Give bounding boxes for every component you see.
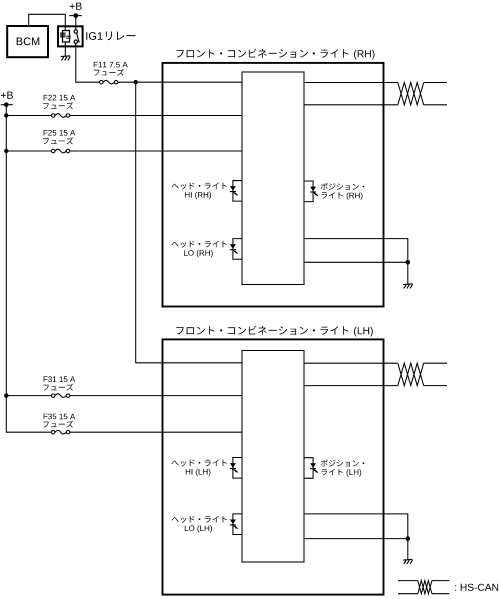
LED position light (RH) xyxy=(304,181,318,202)
fuse F22 15A xyxy=(51,114,69,118)
LED head light HI (RH) xyxy=(230,181,242,202)
wire RH CAN low out xyxy=(304,104,447,106)
label position light (RH) xyxy=(321,183,365,200)
relay coil xyxy=(60,27,71,46)
wire F35 to lamp xyxy=(70,431,242,433)
node LH ground junction xyxy=(406,536,411,541)
LED head light LO (RH) xyxy=(230,239,242,260)
node F25 tap xyxy=(4,149,8,153)
LED head light LO (LH) xyxy=(230,514,242,535)
wire rail to fuse F25 xyxy=(6,150,51,152)
BCM box xyxy=(7,26,48,57)
wire relay coil to ground xyxy=(64,46,66,56)
LH lamp internal unit box xyxy=(242,351,304,563)
fuse F35 15A xyxy=(51,430,69,434)
relay switch xyxy=(74,27,79,46)
label front combination light LH xyxy=(176,326,372,337)
wire F25 to lamp xyxy=(70,150,242,152)
wire to RH ground xyxy=(407,262,409,284)
wire RH lamp ground top xyxy=(304,239,408,263)
wire +B rail down xyxy=(6,105,51,433)
label head light LO (LH) xyxy=(172,516,227,533)
node +B (top, relay supply) xyxy=(69,3,82,18)
node F22 tap xyxy=(4,113,8,117)
wire LH CAN low out xyxy=(304,385,447,387)
wire RH CAN high out xyxy=(304,82,447,84)
RH lamp internal unit box xyxy=(242,72,304,285)
label head light HI (RH) xyxy=(172,183,227,200)
label F31 xyxy=(43,376,75,390)
wire junction down to LH lamp xyxy=(136,82,242,363)
ground (relay coil) xyxy=(61,56,70,61)
label head light HI (LH) xyxy=(172,459,227,476)
LED head light HI (LH) xyxy=(230,458,242,479)
fuse F31 15A xyxy=(51,394,69,398)
wire LH lamp ground bottom xyxy=(304,538,408,540)
twisted pair HS-CAN (LH) xyxy=(398,363,424,385)
LED position light (LH) xyxy=(304,458,318,479)
label F22 xyxy=(43,95,75,109)
node RH ground junction xyxy=(406,260,411,265)
node F11/LH junction xyxy=(134,80,138,84)
label head light LO (RH) xyxy=(172,241,227,258)
label F25 xyxy=(43,130,75,145)
wire to LH ground xyxy=(407,539,409,560)
label front combination light RH xyxy=(176,49,374,60)
wire F11 to RH lamp xyxy=(118,81,242,83)
wire rail to fuse F22 xyxy=(6,115,51,117)
twisted pair HS-CAN (RH) xyxy=(398,83,424,105)
wire F22 to lamp xyxy=(70,115,242,117)
legend twisted pair symbol xyxy=(398,581,449,594)
front combination light LH outer box xyxy=(163,339,384,594)
wire +B to relay switch xyxy=(75,16,77,27)
wire relay to fuse F11 xyxy=(76,46,100,82)
label F11 xyxy=(94,62,128,76)
label F35 xyxy=(43,414,75,428)
node F31 tap xyxy=(4,393,8,397)
wire BCM to relay coil xyxy=(29,14,66,27)
label position light (LH) xyxy=(321,460,365,477)
wire LH CAN high out xyxy=(304,362,447,364)
node +B (left battery rail) xyxy=(1,92,13,107)
fuse F25 15A xyxy=(51,149,69,153)
legend label HS-CAN xyxy=(455,584,498,591)
wire LH lamp ground top xyxy=(304,514,408,539)
relay IG1 box xyxy=(58,26,83,46)
label IG1 relay xyxy=(86,32,135,41)
wire rail to fuse F31 xyxy=(6,395,51,397)
front combination light RH outer box xyxy=(163,63,384,307)
wire RH lamp ground bottom xyxy=(304,261,408,263)
wire F31 to lamp xyxy=(70,395,242,397)
fuse F11 7.5A xyxy=(100,80,118,84)
ground (LH lamp) xyxy=(403,559,412,564)
ground (RH lamp) xyxy=(403,284,412,289)
